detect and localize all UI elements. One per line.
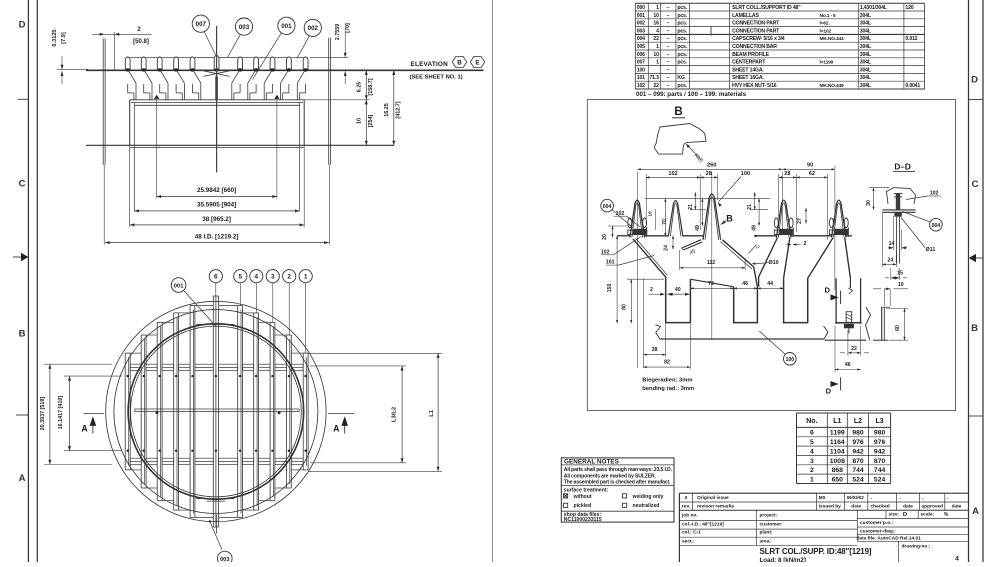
svg-text:304L: 304L <box>860 52 872 58</box>
svg-text:30: 30 <box>866 200 872 206</box>
svg-text:[50.8]: [50.8] <box>133 39 149 45</box>
svg-text:1: 1 <box>656 60 659 66</box>
svg-text:B: B <box>457 59 462 66</box>
svg-text:2: 2 <box>650 287 653 293</box>
svg-text:46: 46 <box>742 281 748 287</box>
svg-text:004: 004 <box>637 36 645 42</box>
svg-text:SLRT COLL./SUPPORT ID 48": SLRT COLL./SUPPORT ID 48" <box>732 5 801 11</box>
svg-text:CAPSCREW- 5/16 x 3/4: CAPSCREW- 5/16 x 3/4 <box>732 36 785 42</box>
svg-text:col.: C-1: col.: C-1 <box>682 530 701 536</box>
svg-text:24: 24 <box>888 257 894 263</box>
callout 004 detail <box>601 199 614 212</box>
svg-text:304L: 304L <box>860 21 872 27</box>
svg-text:260: 260 <box>707 163 716 169</box>
svg-text:2.7559: 2.7559 <box>335 24 341 41</box>
svg-text:pcs.: pcs. <box>677 83 687 89</box>
svg-text:100: 100 <box>785 357 794 363</box>
svg-text:1199: 1199 <box>830 430 845 437</box>
svg-text:L3/L2: L3/L2 <box>392 407 398 422</box>
svg-text:304L: 304L <box>860 75 872 81</box>
svg-text:col.-I.D.: 48"[1219]: col.-I.D.: 48"[1219] <box>682 521 724 527</box>
support ring line 1 <box>130 99 305 101</box>
R10 leader <box>687 144 702 160</box>
right sheet fragment <box>825 339 867 341</box>
svg-text:CONNECTION BAR: CONNECTION BAR <box>732 44 777 50</box>
svg-text:16.1417 [410]: 16.1417 [410] <box>58 396 64 430</box>
svg-text:BEAM PROFILE: BEAM PROFILE <box>732 52 770 58</box>
svg-text:6: 6 <box>810 430 814 437</box>
svg-text:CONNECTION PART: CONNECTION PART <box>732 21 780 27</box>
parts list table grid <box>635 2 924 4</box>
centerpart arch post <box>214 56 219 71</box>
support ring line 2 <box>131 102 303 104</box>
svg-text:Load: 8 [kN/m2]: Load: 8 [kN/m2] <box>760 557 806 562</box>
svg-text:LAMELLAS: LAMELLAS <box>732 13 759 19</box>
svg-text:870: 870 <box>874 458 886 465</box>
detail side spacer bulges <box>628 218 632 228</box>
svg-text:customer p.o.:: customer p.o.: <box>860 520 893 526</box>
detail post 2 <box>668 201 683 237</box>
svg-text:4: 4 <box>255 274 259 281</box>
svg-text:[70]: [70] <box>345 23 351 33</box>
svg-text:942: 942 <box>852 448 864 455</box>
ext 38 left <box>129 146 131 227</box>
checkbox neutralized <box>623 503 627 507</box>
svg-text:[158.7]: [158.7] <box>368 78 374 95</box>
vertical fold line <box>491 0 493 562</box>
svg-text:003: 003 <box>637 28 645 34</box>
svg-text:E: E <box>475 59 479 66</box>
svg-text:4: 4 <box>810 448 814 455</box>
svg-text:project:: project: <box>760 513 778 519</box>
svg-text:4: 4 <box>656 28 659 34</box>
svg-text:MS: MS <box>819 495 826 500</box>
svg-text:524: 524 <box>852 476 864 483</box>
svg-text:06/03/02: 06/03/02 <box>847 495 865 500</box>
svg-text:003: 003 <box>239 24 250 31</box>
svg-text:2: 2 <box>810 467 814 474</box>
svg-text:004: 004 <box>932 223 941 229</box>
svg-text:D: D <box>826 387 832 396</box>
svg-text:sect.:: sect.: <box>682 538 695 544</box>
svg-text:–: – <box>667 21 670 27</box>
svg-text:980: 980 <box>852 430 864 437</box>
svg-text:The assembled part is checked: The assembled part is checked after manu… <box>564 480 671 486</box>
svg-text:Original issue: Original issue <box>697 495 729 501</box>
svg-text:pcs.: pcs. <box>677 52 687 58</box>
svg-text:20.3937 [518]: 20.3937 [518] <box>40 397 46 431</box>
lamella support legs comb <box>129 71 136 83</box>
section arrow A right <box>341 416 348 426</box>
svg-text:drawing-no.:: drawing-no.: <box>902 543 931 549</box>
svg-text:Biegeradien: 3mm: Biegeradien: 3mm <box>642 378 692 384</box>
svg-text:All components are marked by S: All components are marked by SULZER. <box>564 473 657 479</box>
svg-text:[412.7]: [412.7] <box>395 101 401 118</box>
svg-text:001: 001 <box>281 23 292 30</box>
svg-text:B: B <box>674 106 682 118</box>
flange line 2 <box>130 146 305 148</box>
svg-text:date: date <box>952 504 962 510</box>
svg-text:72: 72 <box>708 281 714 287</box>
svg-text:–: – <box>667 60 670 66</box>
svg-text:NC11000233115: NC11000233115 <box>564 517 602 523</box>
callout 100 <box>784 353 797 366</box>
detail web lines <box>617 235 630 237</box>
svg-text:L1: L1 <box>429 409 435 417</box>
svg-text:neutralized: neutralized <box>633 503 660 509</box>
title block grid <box>679 519 857 521</box>
svg-text:pickled: pickled <box>574 503 592 509</box>
svg-text:44: 44 <box>767 281 773 287</box>
svg-text:40: 40 <box>675 287 681 293</box>
svg-text:scale:: scale: <box>921 512 935 518</box>
plan outer flange circle <box>106 301 326 521</box>
svg-text:304L: 304L <box>860 28 872 34</box>
svg-text:005: 005 <box>637 44 645 50</box>
svg-text:D: D <box>971 75 978 86</box>
svg-text:D: D <box>824 286 830 295</box>
svg-text:l=1199: l=1199 <box>820 60 834 66</box>
svg-text:D–D: D–D <box>894 163 910 172</box>
svg-text:0.0041: 0.0041 <box>905 83 920 89</box>
svg-text:102: 102 <box>637 83 645 89</box>
svg-text:21: 21 <box>747 204 753 210</box>
svg-text:SHEET 14GA.: SHEET 14GA. <box>732 67 764 73</box>
svg-text:job no.: job no. <box>681 513 698 519</box>
svg-text:pcs.: pcs. <box>677 44 687 50</box>
svg-text:bending rad.: 3mm: bending rad.: 3mm <box>642 386 694 392</box>
svg-text:A: A <box>19 473 26 484</box>
centering arrow left <box>13 256 21 258</box>
svg-text:pcs.: pcs. <box>677 5 687 11</box>
svg-text:24: 24 <box>664 245 670 251</box>
checkbox pickled <box>564 503 568 507</box>
zone tick left lower <box>16 414 28 416</box>
svg-text:007: 007 <box>637 60 645 66</box>
svg-text:A: A <box>972 506 979 517</box>
svg-text:–: – <box>667 83 670 89</box>
svg-text:9: 9 <box>753 234 758 237</box>
plan callouts 1-6 <box>209 270 222 283</box>
callout 001 <box>278 17 295 34</box>
svg-text:28: 28 <box>706 171 712 177</box>
svg-text:4: 4 <box>955 556 959 563</box>
svg-text:10: 10 <box>653 52 659 58</box>
svg-text:101: 101 <box>637 75 645 81</box>
svg-text:Ø10: Ø10 <box>768 260 778 266</box>
shell box inner right <box>299 103 301 212</box>
plan shell ID circle <box>128 324 304 500</box>
svg-text:L2: L2 <box>854 418 862 425</box>
svg-text:size:: size: <box>889 512 900 518</box>
svg-text:20: 20 <box>602 234 608 240</box>
svg-text:date: date <box>903 504 913 510</box>
centering arrow right <box>976 257 983 259</box>
plan lamella bars <box>124 353 126 470</box>
svg-text:35.5905 [904]: 35.5905 [904] <box>197 202 236 209</box>
checkbox without <box>564 494 568 498</box>
svg-text:MK.NO.444: MK.NO.444 <box>820 36 844 42</box>
svg-text:006: 006 <box>637 52 645 58</box>
svg-text:A: A <box>333 424 340 434</box>
ext 6.25 right <box>304 99 369 101</box>
svg-text:10: 10 <box>653 13 659 19</box>
svg-text:pcs.: pcs. <box>677 21 687 27</box>
leg post3 right <box>722 240 753 267</box>
svg-text:46: 46 <box>845 362 851 368</box>
svg-text:90: 90 <box>807 163 813 169</box>
zone tick right lower <box>969 415 984 417</box>
section arrow A left <box>90 416 97 426</box>
svg-text:customer-dwg.:: customer-dwg.: <box>860 528 896 534</box>
sheet border right outer line <box>982 0 984 562</box>
svg-text:007: 007 <box>196 21 207 28</box>
svg-text:304L: 304L <box>860 67 872 73</box>
vessel wall left <box>102 39 104 165</box>
svg-text:744: 744 <box>874 467 886 474</box>
lamella arch posts <box>125 57 130 70</box>
svg-text:0.3125: 0.3125 <box>52 29 58 46</box>
svg-text:[7.9]: [7.9] <box>61 32 67 44</box>
sheet border left inner line <box>36 0 38 562</box>
svg-text:1,4301/304L: 1,4301/304L <box>860 5 888 11</box>
svg-text:1: 1 <box>810 476 814 483</box>
svg-text:Ø11: Ø11 <box>925 247 935 253</box>
svg-text:003: 003 <box>220 557 230 562</box>
svg-text:10: 10 <box>357 118 363 124</box>
svg-text:304L: 304L <box>860 83 872 89</box>
svg-text:%: % <box>944 512 949 518</box>
svg-text:without: without <box>573 494 592 500</box>
shell box inner top <box>134 104 299 106</box>
svg-text:0: 0 <box>685 495 688 501</box>
section line A-A right <box>328 412 354 414</box>
svg-text:–: – <box>667 44 670 50</box>
svg-text:001 – 099: parts / 100 – 199:: 001 – 099: parts / 100 – 199: materials <box>636 91 747 98</box>
svg-text:No.: No. <box>806 418 817 425</box>
svg-text:–: – <box>667 28 670 34</box>
svg-text:SLRT COL./SUPP. ID:48"[1219]: SLRT COL./SUPP. ID:48"[1219] <box>760 547 872 556</box>
stray column mark <box>710 27 712 36</box>
svg-text:D: D <box>903 512 907 518</box>
svg-text:–: – <box>667 75 670 81</box>
svg-text:21: 21 <box>688 204 694 210</box>
svg-text:date: date <box>851 504 861 510</box>
svg-text:304L: 304L <box>860 13 872 19</box>
svg-text:524: 524 <box>874 476 886 483</box>
svg-text:–: – <box>667 13 670 19</box>
cup B <box>733 287 735 324</box>
svg-text:GENERAL NOTES: GENERAL NOTES <box>564 459 620 466</box>
svg-text:–: – <box>667 5 670 11</box>
svg-text:38 [965.2]: 38 [965.2] <box>202 216 231 223</box>
svg-text:MK.NO.449: MK.NO.449 <box>820 83 844 89</box>
svg-text:data file: AutoCAD Rel.14.01: data file: AutoCAD Rel.14.01 <box>857 536 922 542</box>
shelf A-B <box>690 279 733 287</box>
centerpart X mark <box>204 71 230 77</box>
svg-text:22: 22 <box>653 36 659 42</box>
svg-text:15: 15 <box>897 270 903 276</box>
svg-text:112: 112 <box>707 260 715 266</box>
svg-text:surface treatment:: surface treatment: <box>564 487 609 493</box>
plan capscrew dots <box>127 375 129 377</box>
svg-text:976: 976 <box>852 439 864 446</box>
svg-text:10: 10 <box>648 211 654 217</box>
revision table grid <box>678 493 680 562</box>
svg-text:area:: area: <box>760 538 772 544</box>
svg-text:120: 120 <box>905 5 913 11</box>
checkbox welding only <box>623 494 627 498</box>
svg-text:000: 000 <box>637 5 645 11</box>
svg-text:004: 004 <box>603 204 612 210</box>
svg-text:10: 10 <box>898 282 904 288</box>
svg-text:1: 1 <box>656 5 659 11</box>
svg-text:B: B <box>19 329 26 340</box>
svg-text:6.25: 6.25 <box>357 82 363 93</box>
svg-text:001: 001 <box>637 13 645 19</box>
svg-text:D: D <box>19 20 26 31</box>
zone tick left upper <box>18 98 29 100</box>
svg-text:No.1 - 5: No.1 - 5 <box>820 13 837 19</box>
svg-text:issued by: issued by <box>819 504 841 510</box>
weld triangle left <box>154 95 159 99</box>
svg-text:71.3: 71.3 <box>650 75 660 81</box>
general notes box <box>561 458 674 522</box>
svg-text:1: 1 <box>304 274 308 281</box>
svg-text:(SEE SHEET NO. 1): (SEE SHEET NO. 1) <box>410 74 463 80</box>
DD bolt shaft <box>896 194 900 210</box>
hexagon B <box>452 56 466 67</box>
svg-text:rev.: rev. <box>682 504 690 510</box>
svg-text:5: 5 <box>239 274 243 281</box>
svg-text:1: 1 <box>656 44 659 50</box>
zone tick right upper <box>969 99 984 101</box>
svg-text:revison remarks: revison remarks <box>697 504 734 510</box>
svg-text:49: 49 <box>752 225 758 231</box>
svg-text:–: – <box>667 52 670 58</box>
svg-text:–: – <box>667 67 670 73</box>
leg post5 right <box>845 238 851 278</box>
svg-text:304L: 304L <box>860 36 872 42</box>
svg-text:SHEET 16GA.: SHEET 16GA. <box>732 75 764 81</box>
leg post4 left <box>759 238 778 278</box>
plan shell inner circle <box>131 326 302 497</box>
leg post3 left 45-bar <box>682 240 701 248</box>
leg from post1 <box>633 239 666 277</box>
svg-text:1104: 1104 <box>830 448 845 455</box>
svg-text:l=62: l=62 <box>820 21 829 27</box>
svg-text:980: 980 <box>874 430 886 437</box>
DD sheet blob <box>887 188 916 204</box>
vessel wall right <box>328 38 330 165</box>
svg-text:CENTERPART: CENTERPART <box>732 60 766 66</box>
svg-text:002: 002 <box>637 21 645 27</box>
svg-text:942: 942 <box>874 448 886 455</box>
callout 007 <box>192 15 209 32</box>
svg-text:pcs.: pcs. <box>677 28 687 34</box>
detail B blob <box>654 124 706 155</box>
svg-text:L3: L3 <box>876 418 884 425</box>
flange line <box>86 144 394 146</box>
ext 38 right <box>303 146 305 227</box>
svg-text:B: B <box>971 323 978 334</box>
svg-text:checked: checked <box>871 504 890 510</box>
svg-text:001: 001 <box>174 283 184 289</box>
svg-text:38: 38 <box>652 347 658 353</box>
plan connection bar 005 <box>135 408 299 410</box>
detail capscrew assemblies <box>633 229 646 235</box>
svg-text:60: 60 <box>895 325 901 331</box>
svg-text:650: 650 <box>832 476 844 483</box>
ext line right 25.98 <box>276 100 278 199</box>
svg-text:002: 002 <box>308 25 319 32</box>
DD nut <box>894 212 901 216</box>
svg-text:approved: approved <box>922 504 944 510</box>
svg-text:16.25: 16.25 <box>384 103 390 117</box>
svg-text:All parts shall pass through m: All parts shall pass through man ways: 2… <box>564 467 673 473</box>
svg-text:870: 870 <box>852 458 864 465</box>
ext lines top dims <box>636 172 638 369</box>
svg-text:976: 976 <box>874 439 886 446</box>
svg-text:KG: KG <box>677 75 685 81</box>
svg-text:304L: 304L <box>860 60 872 66</box>
svg-text:C: C <box>19 179 26 190</box>
svg-text:80: 80 <box>622 304 628 310</box>
section line A-A left <box>84 412 104 414</box>
peak reference line <box>645 197 770 199</box>
svg-text:5: 5 <box>810 439 814 446</box>
svg-text:28: 28 <box>784 171 790 177</box>
svg-text:25.9842 [660]: 25.9842 [660] <box>197 187 236 194</box>
shell box outer left <box>129 100 131 146</box>
detail post 3 centerpart <box>703 194 721 240</box>
ext 48 right <box>329 165 331 245</box>
weld triangle right <box>274 95 279 99</box>
svg-text:CONNECTION PART: CONNECTION PART <box>732 28 780 34</box>
svg-text:22: 22 <box>851 346 857 352</box>
DD flange lines <box>882 209 915 211</box>
svg-text:150: 150 <box>607 284 613 293</box>
svg-text:48 I.D. [1219.2]: 48 I.D. [1219.2] <box>195 233 239 240</box>
svg-text:49: 49 <box>695 225 701 231</box>
detail post 1 <box>630 200 645 237</box>
svg-text:2: 2 <box>804 241 807 247</box>
plan callout 003 <box>218 551 233 566</box>
svg-text:A: A <box>81 424 88 434</box>
plan staircase steps <box>219 305 238 307</box>
cup D with capscrew <box>835 278 837 324</box>
svg-text:welding only: welding only <box>632 494 664 500</box>
svg-text:744: 744 <box>852 467 864 474</box>
leg post5 left <box>808 238 833 278</box>
svg-text:1008: 1008 <box>830 458 845 465</box>
svg-text:l=102: l=102 <box>820 28 832 34</box>
cup A <box>665 277 667 323</box>
svg-text:27: 27 <box>797 218 803 224</box>
svg-text:100: 100 <box>637 67 645 73</box>
shell box inner left <box>133 103 135 212</box>
svg-text:pcs.: pcs. <box>677 36 687 42</box>
svg-text:–: – <box>667 36 670 42</box>
svg-text:HVY HEX NUT- 5/16: HVY HEX NUT- 5/16 <box>732 83 777 89</box>
L-value table grid <box>797 412 891 414</box>
ext 48 left <box>103 165 105 245</box>
DD callout 004 <box>930 218 943 231</box>
svg-text:102: 102 <box>668 171 677 177</box>
plan connection tie plates <box>130 364 141 370</box>
shell box outer right <box>303 100 305 146</box>
callout 002 <box>304 19 321 36</box>
